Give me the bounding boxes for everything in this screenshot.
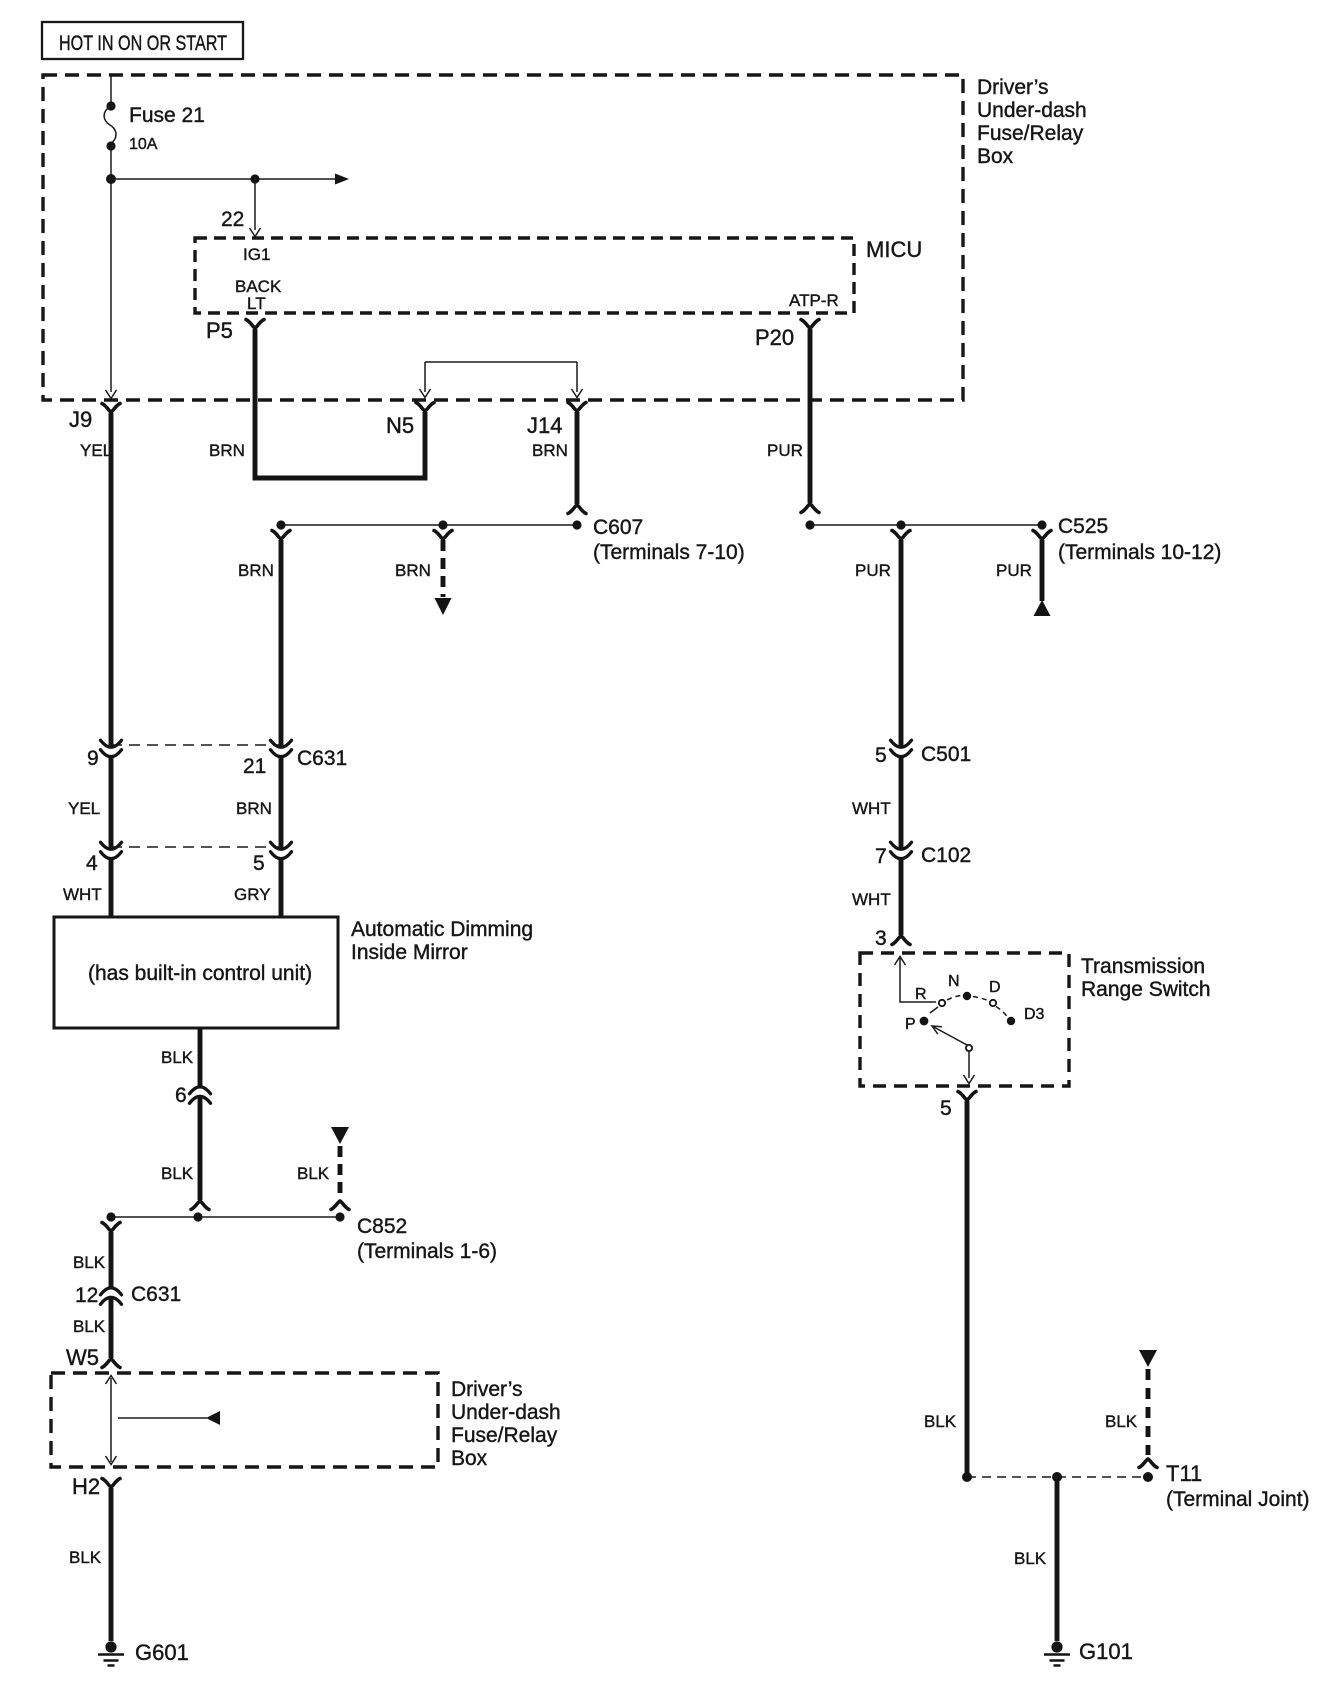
svg-text:N5: N5 [386,413,414,438]
svg-text:W5: W5 [66,1345,99,1370]
svg-text:BLK: BLK [1014,1549,1047,1568]
svg-text:Fuse 21: Fuse 21 [129,104,205,127]
svg-text:(Terminal Joint): (Terminal Joint) [1166,1488,1310,1511]
svg-text:N: N [948,973,960,990]
svg-text:Box: Box [977,145,1014,168]
svg-text:ATP-R: ATP-R [789,291,839,310]
svg-text:G601: G601 [135,1640,189,1665]
svg-text:22: 22 [221,208,244,231]
svg-text:BRN: BRN [532,441,568,460]
svg-text:PUR: PUR [855,561,891,580]
svg-text:5: 5 [253,852,265,875]
svg-text:GRY: GRY [234,885,271,904]
svg-text:WHT: WHT [852,890,891,909]
svg-text:(Terminals 10-12): (Terminals 10-12) [1058,541,1221,564]
svg-text:C501: C501 [921,743,971,766]
svg-text:C631: C631 [297,747,347,770]
svg-text:MICU: MICU [866,237,922,262]
svg-text:(Terminals 1-6): (Terminals 1-6) [357,1240,497,1263]
svg-text:T11: T11 [1166,1461,1202,1486]
svg-text:D3: D3 [1024,1006,1045,1023]
svg-text:R: R [915,986,927,1003]
svg-text:BLK: BLK [924,1412,957,1431]
svg-text:D: D [989,979,1001,996]
svg-text:LT: LT [247,294,266,313]
svg-text:J14: J14 [527,413,562,438]
svg-text:J9: J9 [69,407,92,432]
svg-text:Driver’s: Driver’s [451,1378,523,1401]
svg-text:Range Switch: Range Switch [1081,978,1211,1001]
svg-text:PUR: PUR [996,561,1032,580]
svg-text:BLK: BLK [161,1164,194,1183]
svg-text:C852: C852 [357,1215,407,1238]
svg-text:(has built-in control unit): (has built-in control unit) [88,962,312,985]
svg-text:P5: P5 [206,318,233,343]
svg-text:H2: H2 [72,1474,100,1499]
svg-text:Box: Box [451,1447,488,1470]
svg-text:BLK: BLK [297,1164,330,1183]
svg-text:7: 7 [875,845,887,868]
svg-text:P: P [905,1016,916,1033]
svg-text:BLK: BLK [1105,1412,1138,1431]
svg-text:6: 6 [175,1084,187,1107]
svg-text:BLK: BLK [73,1253,106,1272]
svg-text:BLK: BLK [69,1548,102,1567]
svg-text:Automatic Dimming: Automatic Dimming [351,918,533,941]
svg-text:C631: C631 [131,1283,181,1306]
svg-text:YEL: YEL [80,441,112,460]
svg-text:BLK: BLK [161,1048,194,1067]
svg-text:C102: C102 [921,844,971,867]
svg-text:C607: C607 [593,516,643,539]
svg-text:12: 12 [75,1284,98,1307]
svg-text:IG1: IG1 [243,245,270,264]
svg-text:5: 5 [875,744,887,767]
svg-text:P20: P20 [755,325,794,350]
svg-text:Fuse/Relay: Fuse/Relay [451,1424,558,1447]
svg-text:YEL: YEL [68,799,100,818]
svg-text:Driver’s: Driver’s [977,76,1049,99]
svg-text:WHT: WHT [63,885,102,904]
svg-text:3: 3 [875,927,887,950]
svg-text:Inside Mirror: Inside Mirror [351,941,468,964]
svg-text:9: 9 [87,747,99,770]
svg-text:Under-dash: Under-dash [977,99,1087,122]
svg-text:BRN: BRN [238,561,274,580]
svg-text:G101: G101 [1079,1639,1133,1664]
svg-text:HOT IN ON OR START: HOT IN ON OR START [59,32,227,55]
svg-text:Transmission: Transmission [1081,955,1205,978]
svg-text:BRN: BRN [236,799,272,818]
svg-text:21: 21 [243,755,266,778]
svg-text:BRN: BRN [395,561,431,580]
svg-text:4: 4 [86,852,98,875]
svg-text:PUR: PUR [767,441,803,460]
svg-text:WHT: WHT [852,799,891,818]
svg-text:(Terminals 7-10): (Terminals 7-10) [593,541,745,564]
svg-text:BLK: BLK [73,1317,106,1336]
svg-text:5: 5 [940,1097,952,1120]
svg-text:C525: C525 [1058,515,1108,538]
svg-text:Fuse/Relay: Fuse/Relay [977,122,1084,145]
svg-text:BRN: BRN [209,441,245,460]
svg-text:10A: 10A [129,136,158,153]
svg-text:Under-dash: Under-dash [451,1401,561,1424]
